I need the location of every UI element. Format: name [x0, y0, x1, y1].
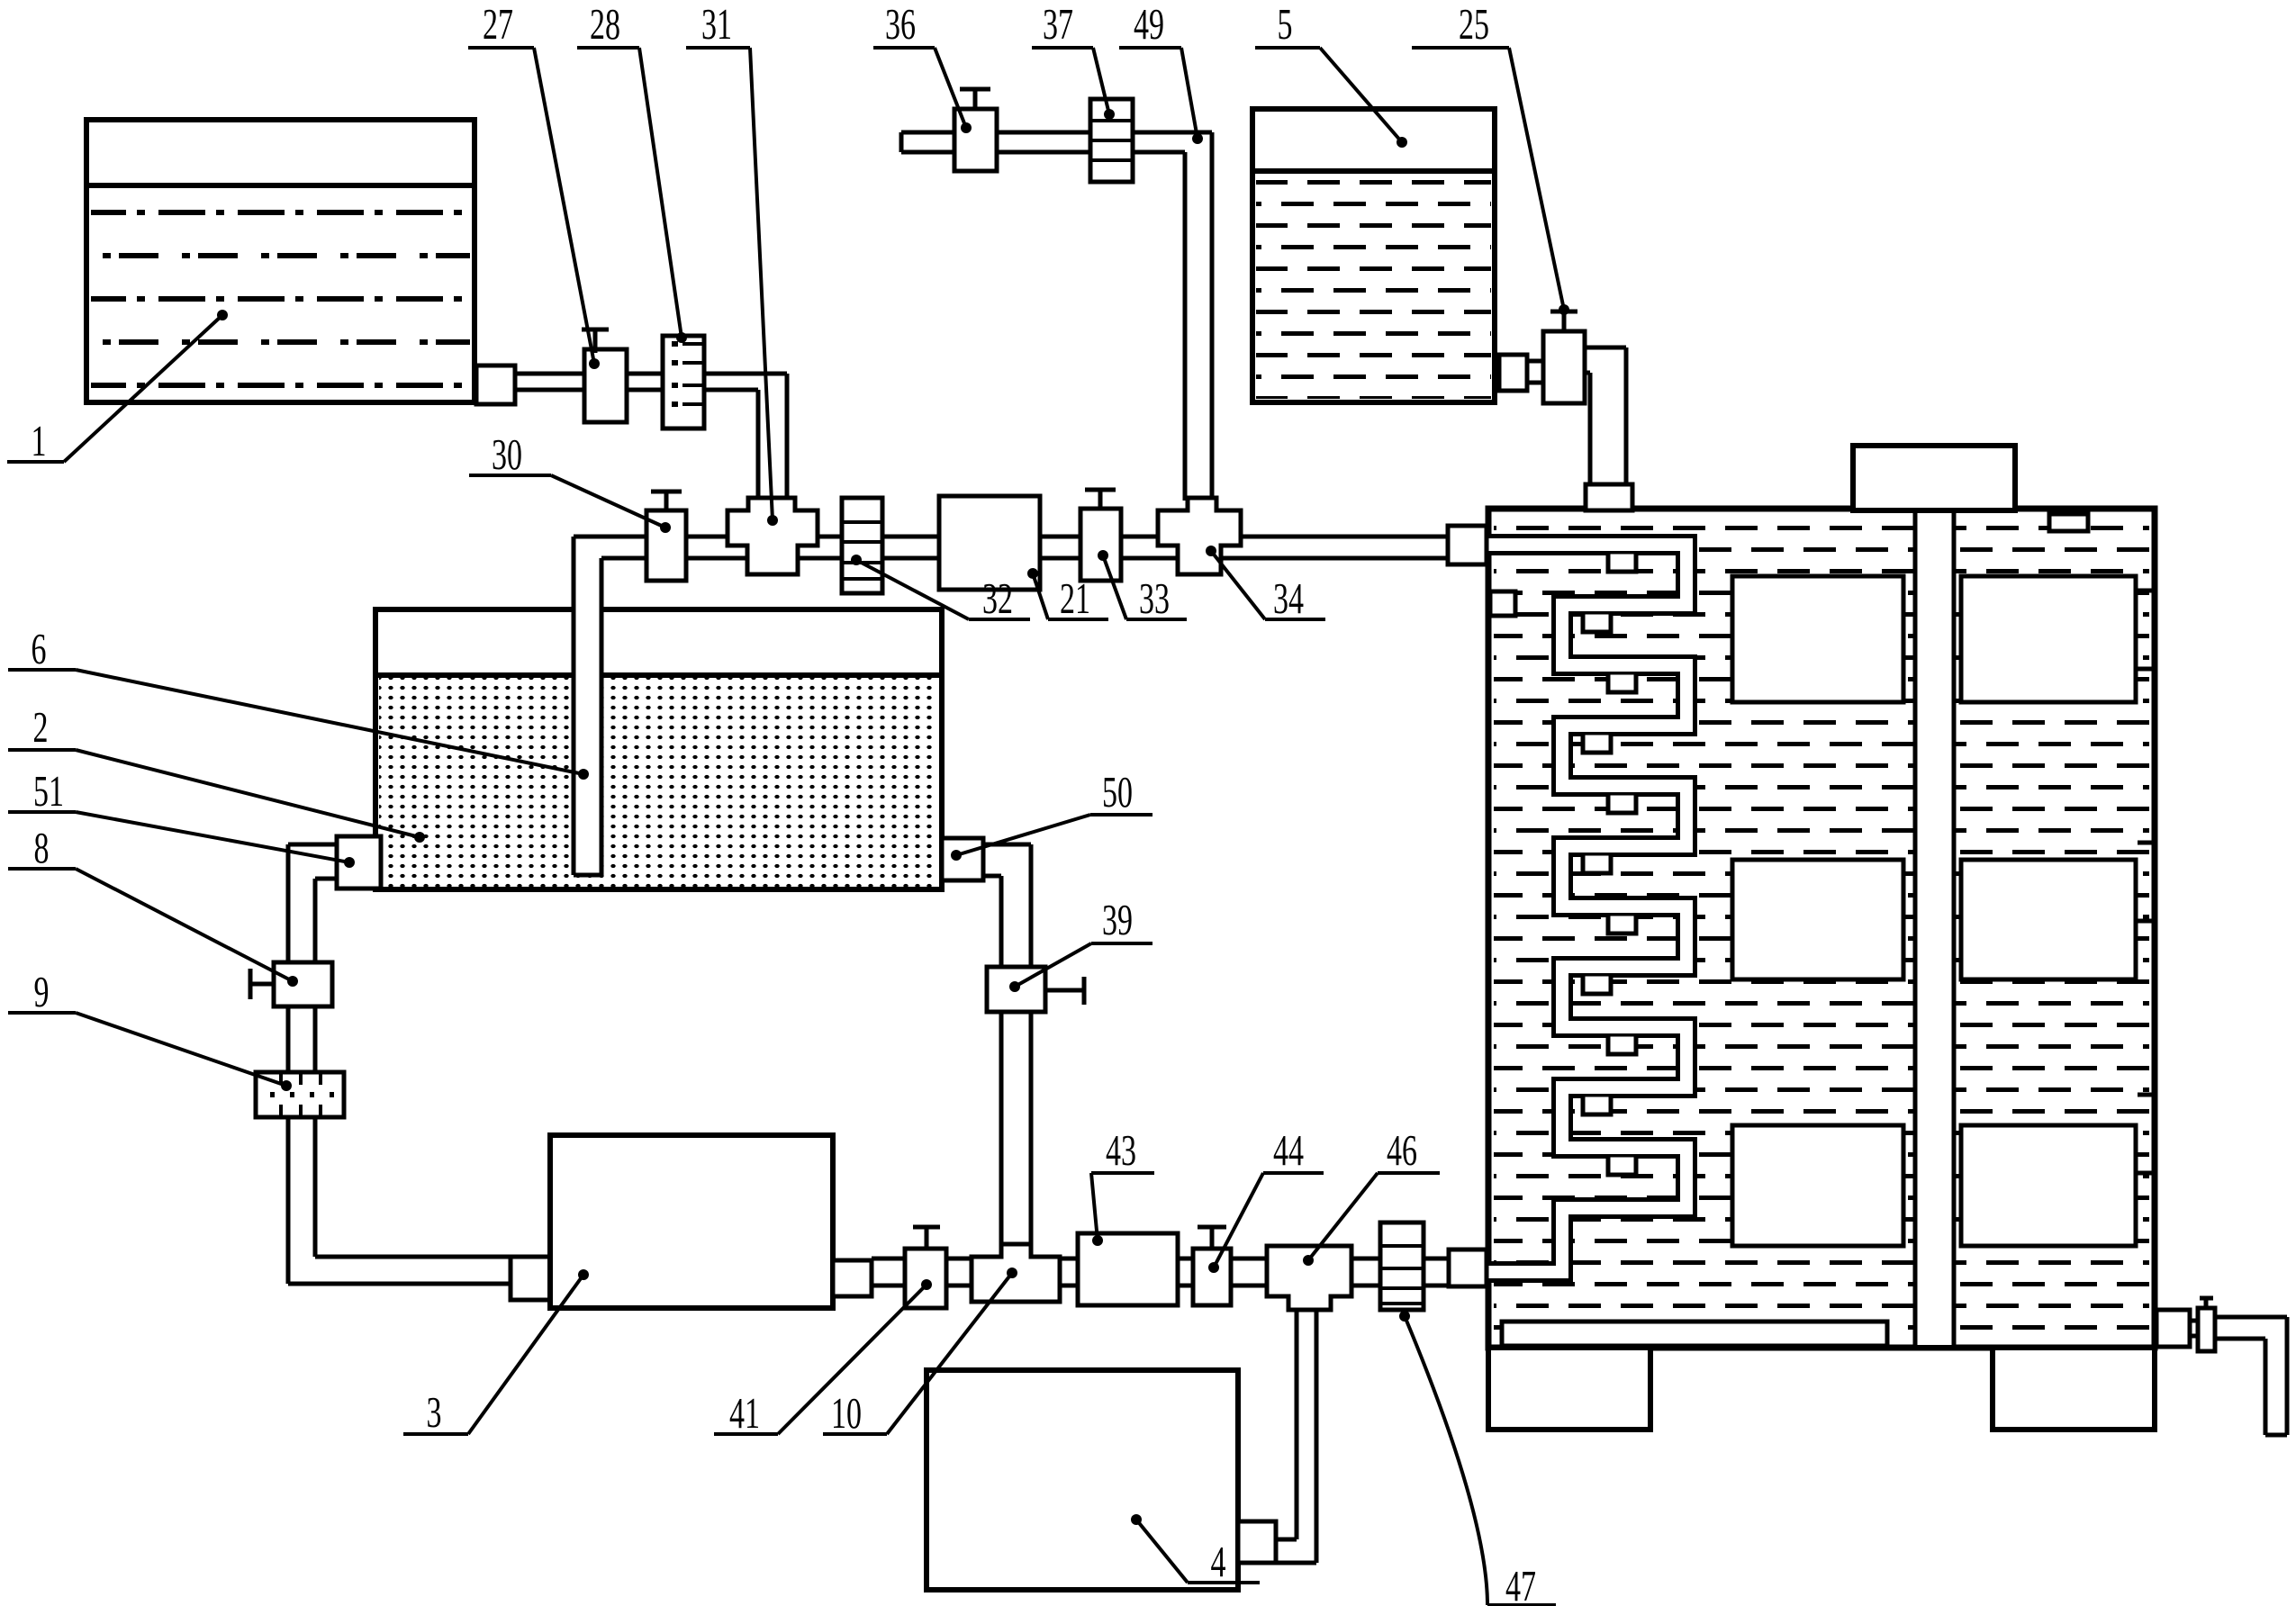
- svg-text:4: 4: [1211, 1537, 1226, 1586]
- label 21: [1027, 568, 1108, 623]
- label 51: [8, 766, 355, 868]
- svg-text:49: 49: [1134, 0, 1164, 49]
- left wall stub box: [1490, 591, 1515, 616]
- valve 36: [954, 89, 997, 171]
- spigot at bottom right of big tank: [2156, 1298, 2287, 1435]
- component 43: [1078, 1233, 1178, 1305]
- svg-text:9: 9: [34, 967, 50, 1016]
- label 46: [1303, 1125, 1440, 1266]
- svg-text:25: 25: [1459, 0, 1489, 49]
- inner box middle bottom: [1732, 1125, 1903, 1246]
- label 36: [873, 0, 972, 133]
- port into big tank (bottom pipe): [1449, 1250, 1487, 1286]
- label 25: [1412, 0, 1569, 315]
- valve 39: [987, 967, 1084, 1012]
- label 8: [8, 823, 298, 987]
- svg-text:5: 5: [1278, 0, 1293, 49]
- label 4: [1131, 1514, 1260, 1586]
- top wall tab: [2049, 514, 2088, 531]
- right wall ticks: [2138, 591, 2157, 1173]
- label 32: [851, 555, 1030, 623]
- tee 34: [1158, 498, 1241, 574]
- label 3: [403, 1269, 589, 1437]
- svg-text:37: 37: [1043, 0, 1073, 49]
- component 3 right port: [833, 1260, 872, 1296]
- svg-text:41: 41: [729, 1388, 760, 1438]
- label 27: [468, 0, 600, 369]
- tank 4: [927, 1370, 1238, 1590]
- valve 25: [1543, 311, 1585, 403]
- label 10: [823, 1268, 1017, 1438]
- svg-text:2: 2: [33, 702, 49, 752]
- svg-text:33: 33: [1139, 573, 1170, 623]
- wire: pipe from tank 5 via valve 25 down to big tank top: [1527, 347, 1626, 491]
- label 39: [1009, 895, 1153, 992]
- component 32: [842, 498, 882, 593]
- cap on big tank top: [1853, 446, 2015, 510]
- component 47: [1380, 1223, 1424, 1310]
- component 3: [550, 1135, 833, 1308]
- component 3 left port: [511, 1257, 550, 1300]
- label 47: [1399, 1311, 1556, 1606]
- inner box right mid: [1961, 860, 2136, 979]
- valve 33: [1080, 490, 1121, 581]
- inner box right bottom: [1961, 1125, 2136, 1246]
- label 49: [1119, 0, 1203, 144]
- label 50: [951, 767, 1153, 861]
- wire: pipe from tee 46 down to tank 4 port: [1276, 1305, 1316, 1563]
- right foot: [1993, 1348, 2155, 1430]
- valve 27: [582, 329, 627, 422]
- svg-text:10: 10: [831, 1388, 862, 1438]
- bottom plate: [1502, 1322, 1887, 1346]
- svg-text:47: 47: [1505, 1561, 1536, 1606]
- left foot: [1488, 1348, 1650, 1430]
- svg-text:34: 34: [1273, 573, 1304, 623]
- wire: dip tube into tank 2: [574, 537, 601, 875]
- inner box middle top: [1732, 576, 1903, 702]
- wire: pipe from port 50 down through valve 39 to tee 10: [983, 844, 1031, 1259]
- label 37: [1032, 0, 1115, 120]
- svg-text:31: 31: [701, 0, 732, 49]
- fitting on big tank top: [1586, 484, 1632, 510]
- label 44: [1208, 1125, 1324, 1273]
- label 43: [1091, 1125, 1154, 1246]
- svg-text:44: 44: [1273, 1125, 1304, 1175]
- svg-text:28: 28: [590, 0, 620, 49]
- serpentine coil: [1486, 545, 1686, 1272]
- label 30: [469, 429, 671, 533]
- tee 10: [972, 1244, 1060, 1302]
- label 33: [1098, 550, 1187, 623]
- valve 8: [250, 962, 332, 1006]
- big tank assembly: [1488, 509, 2155, 1348]
- tee 31: [728, 498, 818, 574]
- component 37: [1090, 99, 1133, 182]
- label 6: [8, 624, 589, 780]
- tank 1 outlet port: [476, 365, 515, 404]
- valve 30: [646, 492, 686, 581]
- tee 46: [1267, 1246, 1351, 1310]
- svg-text:8: 8: [34, 823, 50, 872]
- inner box right top: [1961, 576, 2136, 702]
- svg-text:3: 3: [427, 1387, 442, 1437]
- wire: main middle pipe from dip tube through 30,31,32,21,33,34 to big tank: [574, 537, 1486, 558]
- svg-text:51: 51: [33, 766, 64, 816]
- label 41: [714, 1279, 932, 1438]
- svg-text:27: 27: [483, 0, 513, 49]
- label 34: [1206, 546, 1325, 623]
- tank 2: [375, 609, 942, 889]
- svg-text:43: 43: [1106, 1125, 1136, 1175]
- svg-text:21: 21: [1060, 573, 1090, 623]
- label 2: [8, 702, 425, 843]
- svg-text:30: 30: [492, 429, 522, 479]
- svg-text:39: 39: [1102, 895, 1133, 944]
- tank 4 port: [1238, 1521, 1276, 1563]
- box 21: [939, 496, 1040, 590]
- tank 1: [86, 120, 475, 402]
- label 28: [577, 0, 687, 343]
- label 31: [686, 0, 778, 526]
- tank 5 outlet port: [1499, 355, 1527, 391]
- svg-text:50: 50: [1102, 767, 1133, 817]
- svg-text:6: 6: [32, 624, 47, 673]
- inner box middle mid: [1732, 860, 1903, 979]
- svg-text:46: 46: [1387, 1125, 1417, 1175]
- wire: pipe from tank 1 through valves 27/28 and elbow down to tee 31: [515, 374, 787, 501]
- tank 5: [1252, 109, 1495, 402]
- port 50 on tank 2: [942, 838, 983, 880]
- valve 41: [905, 1227, 946, 1308]
- wire: top pipe with valve 36, component 37, elbow 49 down to tee 34: [901, 132, 1212, 501]
- port into big tank (mid pipe): [1448, 526, 1487, 564]
- divider column: [1915, 511, 1954, 1345]
- port 51 on tank 2: [337, 836, 381, 889]
- component 28: [663, 336, 704, 429]
- label 9: [8, 967, 292, 1091]
- wire: pipe from port 51 down through valve 8 and component 9 to component 3: [288, 844, 511, 1284]
- label 5: [1255, 0, 1407, 148]
- svg-text:32: 32: [982, 573, 1013, 623]
- wire: bottom pipe from component 3 to big tank through 41,10,43,44,46,47: [872, 1259, 1468, 1286]
- svg-text:1: 1: [32, 416, 47, 465]
- label 1: [7, 310, 228, 465]
- svg-text:36: 36: [885, 0, 916, 49]
- component 9: [256, 1072, 344, 1117]
- valve 44: [1193, 1227, 1231, 1305]
